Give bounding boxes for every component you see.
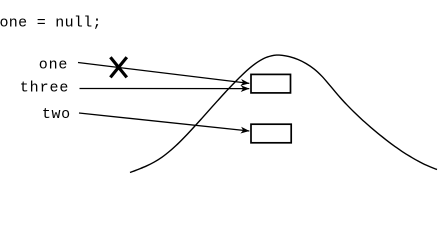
wire: arrow from three to upper object [80,88,250,90]
X mark (null cross) on one's arrow [110,57,126,77]
wire: arrow from two to lower object [79,113,249,131]
node: lower object rectangle [251,124,291,143]
svg-text:two: two [42,106,71,123]
svg-text:one = null;: one = null; [0,14,102,31]
svg-text:one: one [39,57,68,74]
svg-text:three: three [20,79,70,96]
wire: arrow from one to upper object [78,63,249,84]
node: upper object rectangle [251,74,291,93]
heap boundary curve [130,55,437,172]
